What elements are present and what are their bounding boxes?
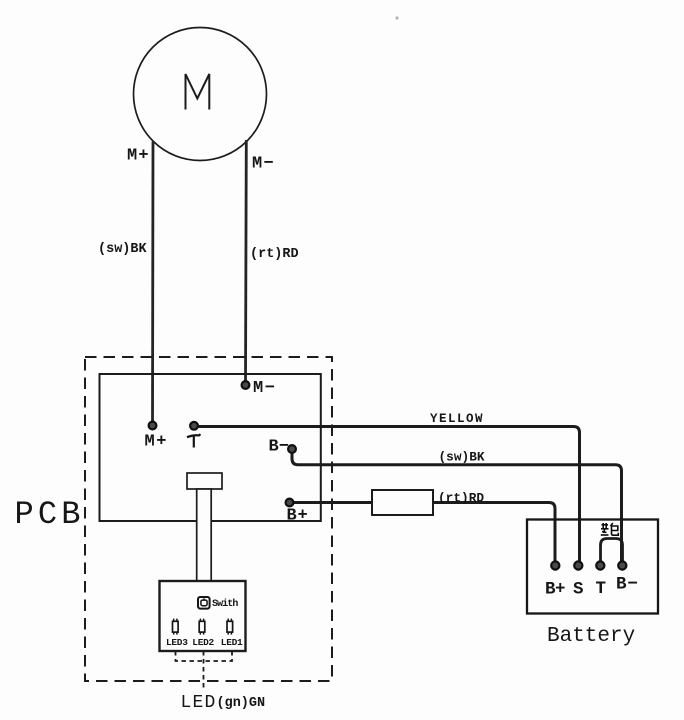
svg-text:M+: M+ bbox=[127, 147, 150, 166]
svg-text:B+: B+ bbox=[287, 507, 309, 526]
svg-text:M+: M+ bbox=[145, 433, 169, 452]
svg-text:Battery: Battery bbox=[547, 625, 635, 648]
svg-text:YELLOW: YELLOW bbox=[430, 412, 484, 426]
svg-text:(rt)RD: (rt)RD bbox=[438, 491, 484, 506]
svg-text:(rt)RD: (rt)RD bbox=[250, 247, 299, 262]
svg-text:Swith: Swith bbox=[212, 598, 238, 610]
svg-text:(sw)BK: (sw)BK bbox=[98, 242, 148, 257]
svg-text:LED3: LED3 bbox=[166, 637, 188, 648]
svg-text:T: T bbox=[596, 579, 607, 599]
svg-text:LED2: LED2 bbox=[192, 637, 214, 648]
svg-text:B+: B+ bbox=[545, 580, 565, 600]
svg-text:LED1: LED1 bbox=[221, 637, 243, 648]
svg-text:LED: LED bbox=[181, 693, 217, 713]
svg-text:B−: B− bbox=[269, 438, 289, 457]
svg-text:S: S bbox=[573, 580, 584, 600]
svg-text:(sw)BK: (sw)BK bbox=[439, 450, 485, 465]
svg-text:M−: M− bbox=[252, 155, 275, 174]
svg-text:(gn)GN: (gn)GN bbox=[217, 696, 266, 711]
svg-text:PCB: PCB bbox=[15, 496, 85, 533]
svg-text:M−: M− bbox=[253, 379, 276, 398]
svg-text:B−: B− bbox=[616, 575, 639, 595]
